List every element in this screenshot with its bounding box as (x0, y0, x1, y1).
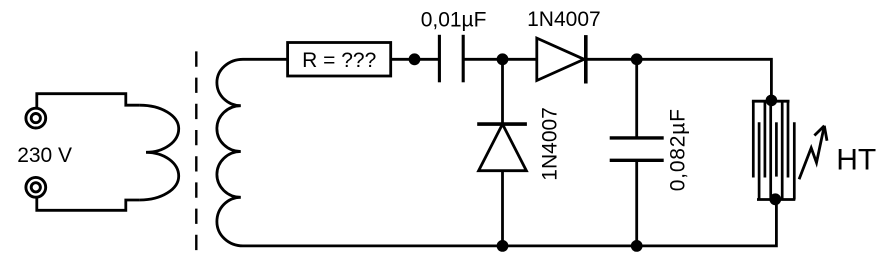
svg-text:0,01µF: 0,01µF (421, 9, 487, 32)
svg-text:0,082µF: 0,082µF (667, 108, 690, 191)
svg-text:HT: HT (836, 143, 876, 176)
svg-text:1N4007: 1N4007 (527, 8, 601, 31)
svg-text:230 V: 230 V (17, 144, 72, 167)
svg-text:1N4007: 1N4007 (539, 107, 562, 181)
svg-text:R = ???: R = ??? (302, 49, 376, 72)
